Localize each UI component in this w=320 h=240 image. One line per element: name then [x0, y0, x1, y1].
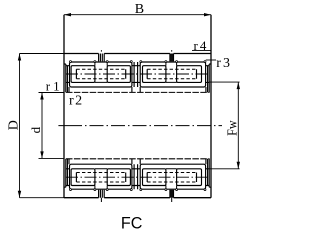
arrow B left [64, 13, 71, 16]
svg-text:r1: r1 [46, 79, 63, 94]
raceway stubs left [66, 66, 70, 83]
roller row 3 [143, 66, 166, 83]
svg-text:r2: r2 [69, 93, 84, 108]
svg-text:r3: r3 [216, 56, 232, 71]
raceway stubs center [132, 66, 140, 83]
pin dashed cassette 1 [76, 69, 125, 79]
dimension Fw extension lines [209, 82, 240, 169]
svg-text:d: d [28, 126, 43, 133]
arrow D top [18, 54, 21, 61]
left face step [64, 64, 67, 92]
arrow Fw bottom [237, 162, 240, 169]
left face line [63, 15, 65, 198]
svg-text:Fw: Fw [226, 120, 241, 136]
r4 leader line [192, 50, 211, 52]
cage cassette 2 [140, 62, 205, 87]
dimension d extension lines [39, 93, 65, 159]
dimension B line [64, 14, 211, 16]
arrow d top [40, 93, 43, 100]
right face step [208, 64, 211, 92]
r3 leader line [206, 59, 216, 61]
raceway stubs right [206, 66, 210, 83]
cage rivet circles [70, 61, 206, 63]
roller row 2 [107, 66, 130, 83]
pin dashed cassette 2 [147, 69, 196, 79]
oil hole center ticks [101, 50, 171, 202]
svg-text:FC: FC [121, 215, 143, 233]
cage bar edges [95, 62, 177, 66]
svg-text:r4: r4 [194, 38, 209, 53]
arrowheads [18, 13, 240, 198]
dimension D line [19, 54, 21, 198]
bearing half-section upper (mirrored below) [64, 54, 211, 93]
oil slot hatch right [170, 54, 174, 62]
outer ring OD line [64, 53, 211, 55]
dimension D extension lines [20, 54, 65, 198]
svg-text:D: D [6, 120, 21, 130]
cage cassette 1 [70, 62, 132, 87]
bore dashed line [66, 91, 210, 93]
inter-cassette rib verticals [134, 62, 138, 87]
roller row 1 [71, 66, 95, 83]
roller row 4 [177, 66, 202, 83]
right face line [210, 15, 212, 198]
bearing half-section lower (mirror) [64, 159, 211, 198]
roller axis dash-dot [66, 73, 210, 75]
arrow D bottom [18, 191, 21, 198]
inner ring rib verticals [69, 87, 206, 92]
arrow B right [204, 13, 211, 16]
oil slot hatch left [99, 54, 105, 62]
dimension d line [41, 93, 43, 159]
arrow Fw top [237, 82, 240, 89]
cage bar bottoms [95, 81, 177, 83]
dimension Fw line [237, 82, 239, 169]
arrow d bottom [40, 151, 43, 158]
svg-text:B: B [135, 2, 144, 17]
centerline axis [58, 125, 82, 127]
